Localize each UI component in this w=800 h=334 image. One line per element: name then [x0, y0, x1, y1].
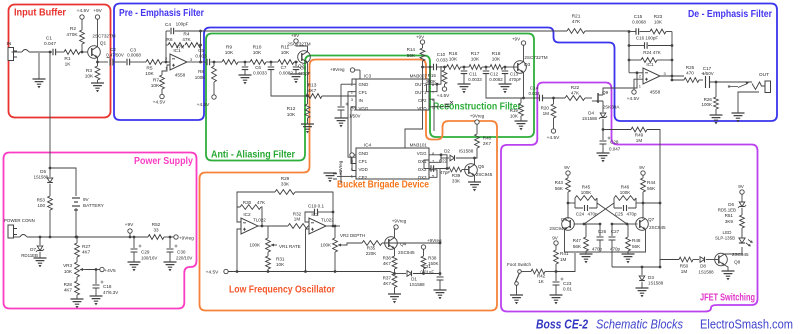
capacitor C.VDD bypass [445, 101, 454, 107]
svg-text:10K: 10K [85, 74, 94, 80]
svg-text:470p: 470p [592, 247, 603, 252]
svg-text:4K7: 4K7 [383, 281, 392, 286]
ground (C8) [290, 74, 303, 83]
resistor R11 [278, 45, 294, 65]
potentiometer VR1 RATE [249, 226, 300, 252]
svg-text:C24: C24 [576, 212, 585, 217]
foot switch [515, 270, 522, 295]
svg-text:R29: R29 [281, 176, 290, 181]
wire C26 top [584, 223, 601, 236]
svg-text:9V: 9V [738, 184, 745, 189]
node +9V (Q3) [512, 37, 526, 62]
wire feedback right rail [671, 32, 674, 82]
svg-text:R40: R40 [483, 136, 492, 141]
diode D6 (zener) [718, 202, 746, 215]
resistor R20 [541, 98, 556, 118]
ground (C21) [434, 280, 447, 299]
svg-text:56K: 56K [555, 186, 564, 191]
wire R17-R18 [482, 66, 490, 69]
node +9Vreg (R38) [421, 238, 442, 256]
caption ElectroSmash.com [700, 317, 793, 332]
capacitor C (IC4 CP2) and ground [324, 170, 357, 183]
svg-text:470p: 470p [626, 212, 637, 217]
svg-text:D4: D4 [588, 111, 594, 116]
svg-text:1M: 1M [560, 257, 567, 262]
wire D8 to Q8 base [706, 259, 719, 261]
input jack J1 [8, 48, 17, 61]
resistor R43 [555, 178, 571, 192]
wire IC3 OUT pins [429, 66, 441, 92]
svg-text:C29: C29 [141, 250, 150, 255]
resistor R50 [679, 257, 693, 274]
wire Q4 emitter [394, 249, 396, 257]
svg-text:Q6: Q6 [561, 217, 568, 222]
node +9V (Q2) [291, 33, 308, 52]
wire R22 to Q9 gate [585, 97, 592, 99]
svg-text:R48: R48 [632, 238, 641, 243]
svg-text:56K: 56K [407, 53, 416, 58]
svg-text:9V: 9V [83, 197, 90, 202]
wire dry signal (top bus) [201, 30, 568, 32]
svg-text:0.0068: 0.0068 [127, 53, 141, 58]
ground (R12) [301, 118, 314, 133]
svg-text:R5: R5 [146, 66, 152, 72]
svg-text:220/10V: 220/10V [176, 256, 192, 261]
svg-text:C12: C12 [490, 72, 499, 77]
parallel R45/C24 loop [568, 185, 598, 217]
svg-text:MN3007: MN3007 [410, 74, 428, 79]
resistor R48 [626, 224, 642, 251]
svg-text:Boss CE-2: Boss CE-2 [536, 317, 588, 332]
svg-text:R25: R25 [686, 65, 695, 70]
svg-text:BATTERY: BATTERY [83, 203, 104, 208]
wire R31 to rail [267, 269, 270, 273]
label POWER CONN [4, 218, 35, 223]
svg-text:56K: 56K [573, 244, 582, 249]
jack switch contact [22, 50, 29, 53]
svg-text:2SC945: 2SC945 [398, 250, 415, 255]
resistor R21 [567, 14, 585, 34]
resistor R14 [420, 48, 425, 68]
svg-text:POWER CONN: POWER CONN [4, 218, 35, 223]
svg-text:+4.5V: +4.5V [437, 93, 450, 99]
wire D4 to C28 node [602, 119, 605, 131]
wire D2 to Q5 collector [456, 157, 476, 165]
IC3 pin numbers [351, 82, 435, 110]
svg-text:C30: C30 [177, 250, 186, 255]
svg-text:C14: C14 [530, 86, 539, 91]
resistor R31 [266, 252, 286, 269]
svg-text:300K: 300K [425, 79, 436, 84]
resistor R1 [64, 50, 80, 68]
ground (C29) [128, 252, 141, 271]
wire R10-R11 [266, 61, 278, 64]
wire R35 to Q4 base [382, 242, 441, 245]
svg-text:R21: R21 [572, 14, 581, 20]
node +4.5V (IC1b) [627, 90, 640, 102]
svg-text:Q7: Q7 [648, 217, 655, 222]
resistor R36 [383, 256, 397, 269]
svg-text:R8: R8 [198, 69, 204, 74]
resistor R16 [447, 51, 461, 69]
svg-text:1S1588: 1S1588 [648, 281, 664, 286]
resistor R52 [148, 222, 164, 239]
wire R21 to de-emphasis [585, 30, 629, 32]
svg-text:56K: 56K [632, 244, 641, 249]
transistor Q1 [88, 34, 116, 59]
svg-text:CP1: CP1 [359, 159, 368, 164]
wire to D2 [441, 155, 449, 158]
wire Q6 base node [574, 223, 586, 226]
diode D5 [34, 168, 53, 183]
wire Q7 emitter [612, 230, 646, 253]
wire IC3 pin1 [341, 70, 360, 106]
IC U-IC3 MN3007 [356, 74, 429, 111]
svg-text:VGG: VGG [359, 106, 369, 111]
svg-text:VR2 DEPTH: VR2 DEPTH [340, 233, 365, 238]
ground (input jack) [33, 53, 46, 88]
ground (C6) [239, 75, 252, 84]
ground (jack) [732, 92, 760, 122]
capacitor C10 [434, 52, 449, 70]
capacitor C22 [424, 159, 450, 176]
resistor R2 [66, 26, 84, 44]
svg-text:C15: C15 [634, 14, 643, 19]
resistor R38 [421, 256, 438, 269]
svg-text:Q5: Q5 [478, 164, 485, 169]
wire R40 to Q5 [475, 148, 478, 158]
svg-text:R13: R13 [308, 83, 317, 89]
svg-text:+4.5V: +4.5V [77, 8, 90, 14]
capacitor C15 [629, 14, 646, 35]
diode D7 (zener) [21, 236, 44, 258]
svg-text:Anti - Aliasing Filter: Anti - Aliasing Filter [211, 149, 295, 161]
resistor R4 [166, 32, 192, 48]
wire D1 to C21 node [413, 272, 441, 275]
wire R25 to C17 [699, 79, 703, 81]
wire R9-R10 [238, 61, 250, 64]
node 9V (R41) [552, 236, 559, 251]
svg-text:Bucket Brigade Device: Bucket Brigade Device [337, 179, 429, 191]
wire IC4 right pins [429, 153, 447, 177]
wire power bus [14, 236, 149, 238]
svg-text:R22: R22 [571, 85, 580, 90]
svg-text:1M: 1M [294, 217, 301, 222]
svg-text:4558: 4558 [175, 73, 186, 78]
resistor R10 [250, 45, 266, 65]
block Input Buffer (red outline) [9, 5, 111, 118]
svg-text:+9V: +9V [416, 35, 425, 40]
resistor R9 [222, 45, 238, 65]
wire VR2 to rail [334, 252, 337, 273]
wire IC2b + input to rail [304, 229, 309, 273]
label Low Frequency Oscillator [229, 284, 335, 296]
block Bucket Brigade Device / LFO (orange outline) [200, 60, 498, 311]
label Anti - Aliasing Filter [211, 149, 295, 161]
IC4 pin numbers [351, 151, 435, 179]
svg-text:100pF: 100pF [176, 22, 189, 27]
diode D3 [639, 267, 664, 286]
svg-text:47K: 47K [571, 91, 580, 96]
block Pre-Emphasis / De-Emphasis (blue outline) [114, 4, 777, 122]
svg-text:C26: C26 [598, 229, 607, 234]
svg-text:C10: C10 [437, 52, 446, 57]
svg-text:10K: 10K [145, 71, 154, 77]
capacitor C14 [524, 86, 543, 102]
capacitor C17 [702, 66, 714, 88]
svg-text:C25: C25 [615, 212, 624, 217]
capacitor C9 [338, 103, 361, 119]
svg-text:C4: C4 [165, 22, 171, 28]
ground (foot switch) [510, 295, 523, 304]
svg-text:0.0082: 0.0082 [279, 71, 293, 76]
svg-text:2K7: 2K7 [483, 141, 492, 146]
op-amp IC1a [165, 48, 193, 78]
resistor R53 [37, 184, 53, 210]
svg-text:D2: D2 [444, 149, 450, 154]
svg-text:JFET Switching: JFET Switching [700, 292, 755, 304]
svg-text:1K: 1K [538, 279, 545, 284]
svg-text:4K7: 4K7 [308, 88, 317, 94]
capacitor C30 [167, 237, 193, 261]
svg-text:ElectroSmash.com: ElectroSmash.com [700, 317, 793, 332]
resistor R49 [603, 127, 647, 143]
ground (R26) [710, 109, 723, 124]
label JFET Switching [700, 292, 755, 304]
svg-text:R2: R2 [70, 26, 76, 32]
svg-text:10K: 10K [281, 50, 290, 56]
wire R53 to bus [49, 210, 52, 238]
wire input to D5 [49, 150, 52, 169]
svg-text:10K: 10K [225, 50, 234, 56]
svg-text:Q8: Q8 [734, 260, 741, 265]
svg-text:+9Vreg: +9Vreg [427, 238, 442, 243]
svg-text:R14: R14 [407, 47, 416, 52]
label +9Vreg vertical (IC4) [338, 160, 343, 175]
svg-text:33: 33 [153, 228, 159, 233]
wire C17 to out node [710, 81, 753, 84]
svg-text:2SC945: 2SC945 [732, 252, 749, 257]
label Pre - Emphasis Filter [119, 7, 204, 19]
node +4.5V (R8) [197, 82, 217, 108]
wire C7 bootstrap [271, 70, 306, 96]
svg-text:220K: 220K [366, 251, 377, 256]
svg-text:470pF: 470pF [509, 77, 522, 82]
svg-text:IN: IN [7, 41, 12, 47]
parallel R46/C25 loop [614, 185, 643, 217]
wire R38 to node [423, 269, 425, 274]
svg-text:C22: C22 [439, 159, 448, 164]
svg-text:Low Frequency Oscillator: Low Frequency Oscillator [229, 284, 335, 296]
svg-text:+9Vreg: +9Vreg [330, 67, 345, 72]
resistor R18 [490, 51, 503, 69]
resistor R51 [725, 213, 745, 238]
svg-text:47pF: 47pF [440, 170, 451, 175]
label Power Supply [134, 155, 193, 167]
capacitor C4 [165, 22, 201, 35]
svg-text:1K: 1K [65, 62, 72, 68]
svg-text:C5: C5 [198, 48, 204, 53]
node +4V5 [86, 267, 116, 274]
svg-text:R27: R27 [82, 244, 91, 249]
op-amp IC2b [309, 212, 334, 234]
svg-text:R39: R39 [452, 173, 461, 178]
svg-text:47K: 47K [182, 37, 191, 43]
resistor R22 [565, 85, 585, 100]
svg-text:100/16V: 100/16V [141, 256, 157, 261]
wire IC3 CP2/VDD [429, 99, 443, 131]
wire Q7 base node [626, 223, 638, 226]
svg-text:OUT1: OUT1 [415, 90, 427, 95]
svg-text:1S1588: 1S1588 [34, 175, 49, 180]
wire IC1b output [660, 75, 684, 78]
resistor R40 [475, 134, 492, 148]
svg-text:0.033: 0.033 [436, 58, 448, 63]
svg-text:0.47/50V: 0.47/50V [106, 53, 124, 58]
svg-text:100K: 100K [195, 75, 206, 80]
wire IC2a output [258, 225, 268, 228]
transistor Q8 [715, 252, 749, 266]
resistor R37 [383, 274, 397, 288]
IC U-IC4 MN3101 [356, 143, 429, 180]
svg-text:100K: 100K [620, 190, 631, 195]
svg-text:R20: R20 [541, 106, 550, 111]
svg-text:470K: 470K [66, 32, 78, 38]
svg-text:VGG: VGG [417, 151, 427, 156]
svg-text:OUT: OUT [759, 72, 769, 78]
ground (D3) [636, 282, 649, 297]
svg-text:R28: R28 [64, 282, 73, 287]
resistor R3 [85, 62, 100, 80]
transistor Q4 [385, 237, 415, 255]
svg-text:IC2: IC2 [243, 212, 251, 217]
resistor R24 [628, 50, 674, 62]
svg-text:10K: 10K [449, 57, 458, 63]
svg-text:R42: R42 [537, 274, 546, 279]
svg-text:RD11EB: RD11EB [21, 253, 38, 258]
svg-text:+9Vreg: +9Vreg [392, 219, 407, 224]
svg-text:R31: R31 [276, 257, 285, 262]
wire Q6 emitter [565, 230, 601, 253]
wire C22 node to LFO [440, 169, 447, 244]
svg-text:2SC732TM: 2SC732TM [92, 34, 115, 39]
capacitor C3 [127, 48, 141, 66]
svg-text:+9V: +9V [93, 8, 102, 14]
svg-text:+9V: +9V [291, 33, 300, 38]
ground (C11) [458, 84, 471, 93]
svg-text:3K9: 3K9 [725, 219, 734, 224]
svg-text:1S1588: 1S1588 [409, 282, 425, 287]
potentiometer VR3 [63, 257, 86, 277]
svg-text:10K: 10K [654, 20, 662, 25]
ground (C9) [335, 110, 348, 127]
wire Q8 collector to LED [725, 247, 743, 254]
svg-text:R23: R23 [654, 14, 663, 19]
ground (Q8 emitter) [722, 265, 735, 280]
capacitor C29 [131, 236, 158, 261]
capacitor C1 [44, 36, 56, 56]
svg-text:C1: C1 [46, 36, 52, 42]
svg-text:2SC732TM: 2SC732TM [524, 55, 547, 60]
svg-text:0.033: 0.033 [195, 54, 207, 59]
svg-text:+9V: +9V [125, 222, 134, 228]
wire VR2 wiper to R35 [344, 243, 362, 245]
wire network to IC1b [629, 71, 643, 74]
node 9V (R43) [564, 165, 571, 178]
ground (D7) [34, 252, 47, 267]
svg-text:R18: R18 [492, 51, 501, 57]
svg-text:R6: R6 [166, 37, 172, 43]
svg-text:+9Vreg: +9Vreg [338, 160, 343, 175]
svg-text:0.0068: 0.0068 [632, 20, 646, 25]
svg-text:R50: R50 [680, 264, 689, 269]
wire Q3 emitter [522, 73, 525, 100]
svg-text:1M: 1M [636, 138, 643, 143]
svg-text:R45: R45 [582, 185, 591, 190]
svg-text:R37: R37 [383, 276, 392, 281]
svg-text:C7: C7 [281, 65, 287, 70]
svg-text:10K: 10K [64, 269, 73, 274]
wire output feedback vertical [199, 30, 202, 63]
ground (R47) [580, 251, 593, 263]
svg-text:9V: 9V [564, 165, 571, 170]
svg-text:C16 100pF: C16 100pF [636, 36, 659, 41]
transistor Q9 (JFET) [592, 90, 620, 110]
label Bucket Brigade Device [337, 179, 429, 191]
cross-coupling wires [584, 203, 627, 224]
svg-text:VR1 RATE: VR1 RATE [279, 244, 301, 249]
svg-text:47/6.3V: 47/6.3V [103, 290, 118, 295]
wire C14 to R22 [543, 97, 565, 100]
node +9V (power) [125, 222, 134, 238]
svg-text:VR3: VR3 [63, 263, 72, 268]
svg-text:+4.5V: +4.5V [197, 102, 210, 108]
label Reconstruction Filter [433, 101, 521, 113]
wire C27 top [611, 223, 627, 236]
resistor R35 [362, 241, 382, 256]
label Input Buffer [14, 7, 66, 19]
svg-text:Q4: Q4 [400, 242, 407, 247]
block Power Supply (pink outline) [4, 153, 197, 309]
svg-text:9V: 9V [552, 236, 559, 241]
svg-text:R41: R41 [560, 251, 569, 256]
wire bias to IC4 [405, 67, 423, 148]
svg-text:0.047: 0.047 [44, 41, 56, 47]
svg-text:R52: R52 [152, 222, 161, 227]
node +9Vreg (power) [174, 235, 194, 241]
ground (C18) [90, 288, 103, 305]
potentiometer VR2 DEPTH [320, 226, 365, 252]
output jack [752, 81, 771, 93]
wire R39 to Q5 base [462, 169, 468, 171]
svg-text:10K: 10K [471, 57, 480, 63]
svg-text:100K: 100K [320, 243, 331, 248]
resistor R29 [237, 176, 333, 226]
diode D8 [693, 257, 714, 275]
svg-text:+4V5: +4V5 [104, 268, 116, 274]
wire R16-R17 [461, 66, 470, 69]
resistor R12 [287, 96, 310, 118]
svg-text:GND: GND [359, 151, 369, 156]
node +9V (input) [93, 8, 102, 47]
svg-text:47K: 47K [257, 200, 266, 205]
svg-text:R4: R4 [183, 32, 189, 38]
capacitor C27 [609, 229, 621, 252]
battery 9V [50, 168, 104, 238]
capacitor C26 [592, 229, 607, 252]
svg-text:IS1588: IS1588 [459, 149, 474, 154]
wire trigger to R50 [660, 260, 679, 268]
